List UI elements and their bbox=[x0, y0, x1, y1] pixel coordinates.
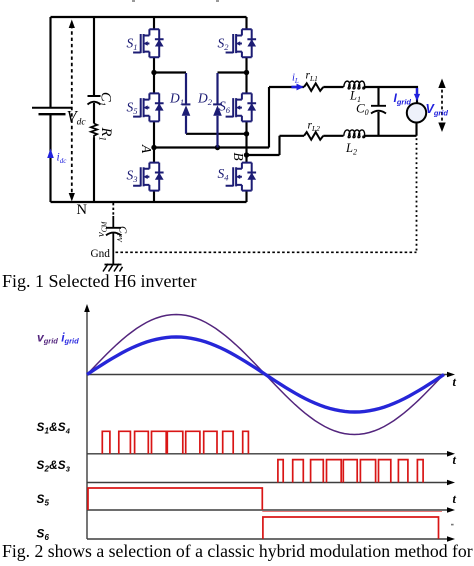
svg-text:t: t bbox=[453, 375, 457, 389]
svg-text:S2&S3: S2&S3 bbox=[37, 459, 71, 474]
svg-text:B: B bbox=[231, 152, 246, 160]
svg-text:A: A bbox=[139, 144, 154, 154]
svg-text:Gnd: Gnd bbox=[91, 248, 111, 260]
svg-text:S1&S4: S1&S4 bbox=[37, 421, 71, 436]
svg-text:t: t bbox=[453, 492, 457, 506]
svg-text:t: t bbox=[453, 453, 457, 467]
svg-text:N: N bbox=[77, 202, 88, 218]
